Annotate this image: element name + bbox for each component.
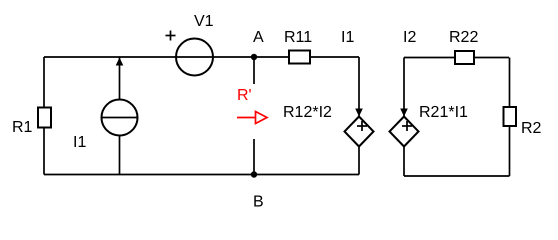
svg-text:I1: I1	[73, 134, 86, 151]
resistor R1	[12, 108, 51, 137]
voltage source V1	[166, 13, 214, 76]
svg-text:I1: I1	[341, 29, 354, 46]
wire: right circuit right vertical	[509, 58, 511, 177]
svg-text:R11: R11	[284, 29, 312, 46]
wire: node B stub up	[253, 139, 255, 175]
current source I1	[73, 58, 138, 152]
svg-text:R1: R1	[12, 119, 33, 136]
node A	[251, 29, 264, 60]
svg-text:B: B	[253, 194, 264, 211]
wire: right circuit bottom horizontal	[404, 175, 510, 177]
svg-text:R2: R2	[521, 120, 542, 137]
svg-text:A: A	[253, 29, 264, 46]
wire: right circuit left vertical upper	[403, 58, 405, 117]
node B	[251, 171, 264, 210]
wire: current source branch vertical	[119, 57, 121, 175]
wire: right circuit left vertical lower	[403, 147, 405, 177]
wire: left circuit right vertical lower	[358, 147, 360, 175]
svg-text:R': R'	[237, 87, 252, 104]
controlled source R12*I2	[283, 104, 374, 147]
svg-text:R21*I1: R21*I1	[419, 104, 468, 121]
wire: right circuit top horizontal	[404, 57, 509, 59]
wire: left circuit top horizontal	[44, 56, 359, 58]
svg-text:R12*I2: R12*I2	[283, 104, 332, 121]
controlled source R21*I1	[390, 104, 469, 147]
resistor R2	[504, 107, 542, 137]
port arrow R'	[237, 87, 267, 124]
wire: node A stub down	[253, 57, 255, 84]
wire: left circuit left vertical	[43, 57, 45, 175]
svg-text:V1: V1	[194, 13, 214, 30]
svg-text:R22: R22	[449, 29, 478, 46]
resistor R22	[449, 29, 478, 64]
wire: left circuit bottom horizontal	[44, 174, 359, 176]
resistor R11	[284, 29, 312, 64]
wire: left circuit right vertical upper	[358, 57, 360, 117]
svg-text:I2: I2	[403, 29, 416, 46]
